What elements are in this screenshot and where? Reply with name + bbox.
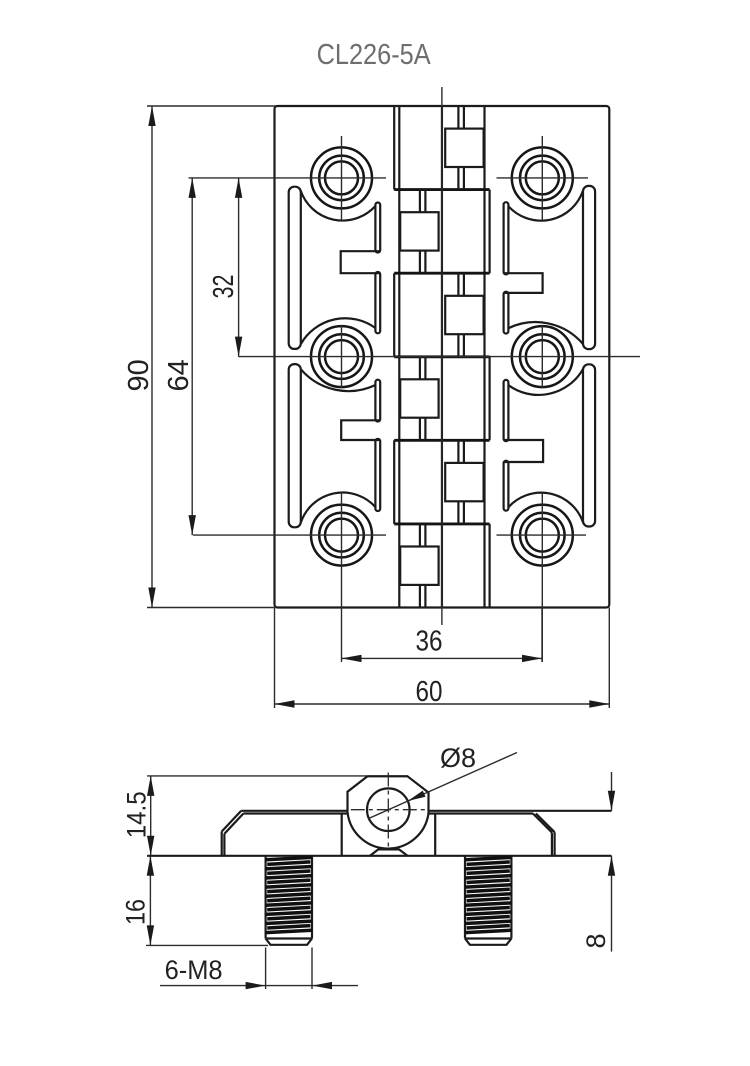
hole centerlines bottom row [193,493,586,662]
mounting baseline (side view) [147,855,611,857]
counterbored hole B1 middle-left [311,326,372,387]
dimension 60 (plate width) [275,608,610,709]
right leaf pocket cutouts (rotated copy) [504,186,595,527]
left leaf pocket cutouts (slots, wrap arcs, tabs) [289,187,380,528]
left leaf profile (side view) [222,811,348,856]
svg-text:36: 36 [416,626,443,658]
title text CL226-5A [317,39,432,71]
hole centerlines middle row [239,325,641,388]
dimension 32 (hole pitch) [208,178,242,357]
dimension 6-M8 (stud thread) [160,948,358,990]
counterbored hole C1 bottom-left [311,505,372,566]
threaded stud M8 left [266,856,312,945]
hole centerlines top row [189,136,588,220]
svg-text:14.5: 14.5 [122,791,152,838]
dimension 8 (leaf offset height) [581,772,615,952]
svg-text:32: 32 [208,275,240,299]
counterbored hole C2 bottom-right [512,505,573,566]
pin bore circle (side view) [367,788,410,831]
counterbored hole B2 middle-right [512,326,573,387]
dimension 90 (plate height) [123,106,276,608]
counterbored hole A1 top-left [311,147,372,208]
svg-text:Ø8: Ø8 [440,743,476,773]
diameter leader &#216;8 (pin bore) [369,743,517,818]
svg-text:CL226-5A: CL226-5A [317,39,432,71]
right leaf profile (side view) [429,811,612,856]
dimension 36 (hole column spacing) [342,608,543,663]
barrel top extension line [147,775,408,777]
dimension 64 (outer hole spacing) [163,178,196,535]
svg-text:90: 90 [123,359,155,391]
counterbored hole A2 top-right [512,147,573,208]
svg-text:16: 16 [121,899,151,925]
threaded stud M8 right [465,856,511,945]
svg-text:8: 8 [581,933,611,948]
pin bore dashed centerlines [351,773,426,847]
hinge barrel knuckles and pin segments [394,106,489,608]
dimension 16 (stud length) [121,856,269,946]
plate outline (top view) [275,106,610,608]
svg-text:60: 60 [416,676,443,708]
dimension 14.5 (barrel height) [122,776,155,856]
hinge pin centerline [441,87,443,625]
svg-text:64: 64 [163,359,195,391]
svg-text:6-M8: 6-M8 [165,955,223,985]
barrel boss (side view octagon, arc, feet) [342,776,436,856]
